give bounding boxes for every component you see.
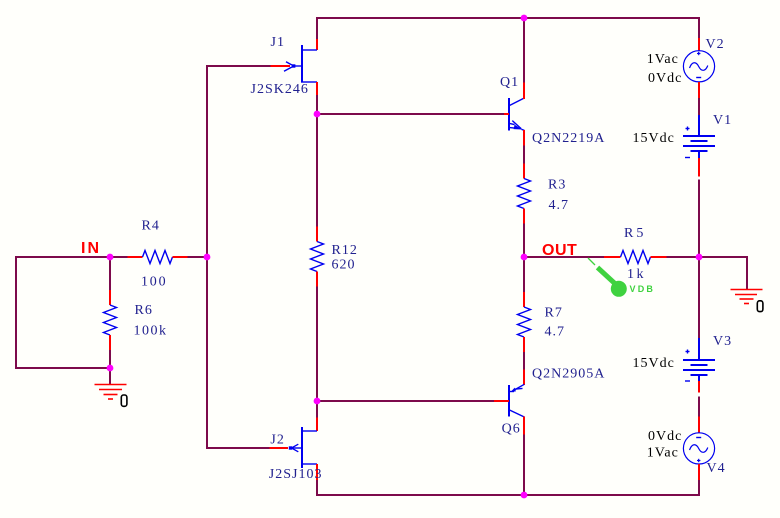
svg-text:R7: R7 — [545, 305, 563, 320]
wire R7 to Q6 emitter — [523, 352, 525, 371]
resistor R5 value 1k — [604, 251, 667, 264]
wire node to J2 drain — [316, 400, 318, 418]
wire OUT node to R7 — [523, 256, 525, 293]
wire node to Q1 base — [316, 113, 505, 115]
resistor R12 value 620 — [311, 227, 324, 287]
resistor R3 value 4.7 — [518, 164, 531, 224]
wire V1 to V3 through right rail node — [698, 180, 700, 339]
wire R6 to ground node — [109, 350, 111, 370]
svg-text:100k: 100k — [134, 323, 168, 338]
junction node dot 1 — [521, 15, 528, 22]
resistor R7 value 4.7 — [518, 292, 531, 352]
junction node dot 3 — [107, 254, 114, 261]
svg-text:Q6: Q6 — [502, 422, 521, 437]
svg-text:J2SK246: J2SK246 — [251, 82, 309, 97]
transistor Q1 Q2N2219A (NPN) — [504, 83, 524, 146]
junction node dot 2 — [314, 111, 321, 118]
svg-text:Q2N2905A: Q2N2905A — [532, 367, 605, 382]
svg-text:620: 620 — [332, 257, 356, 272]
svg-text:0Vdc: 0Vdc — [648, 71, 682, 86]
junction node dot 4 — [204, 254, 211, 261]
svg-text:R5: R5 — [624, 226, 646, 241]
ground 0 left — [95, 385, 127, 400]
wire node to Q6 base — [316, 400, 500, 402]
label 0 of right ground — [757, 301, 763, 312]
svg-text:J1: J1 — [271, 35, 285, 50]
svg-text:R3: R3 — [548, 178, 566, 193]
ground 0 right — [731, 290, 763, 304]
svg-text:J2: J2 — [270, 432, 284, 447]
svg-text:V3: V3 — [713, 334, 732, 349]
probe marker VDB on OUT net — [588, 258, 627, 297]
svg-text:R4: R4 — [142, 219, 160, 234]
wire ground node to ground symbol — [109, 367, 111, 385]
svg-text:15Vdc: 15Vdc — [633, 356, 675, 371]
wire OUT node to R5 — [523, 256, 605, 258]
wire top rail — [317, 18, 699, 40]
svg-text:V2: V2 — [706, 37, 725, 52]
svg-text:1Vac: 1Vac — [647, 445, 679, 460]
svg-text:0Vdc: 0Vdc — [648, 429, 682, 444]
junction node dot 7 — [107, 365, 114, 372]
svg-text:4.7: 4.7 — [549, 198, 570, 213]
svg-text:R12: R12 — [332, 243, 358, 258]
svg-text:VDB: VDB — [630, 284, 656, 294]
wire IN node to R6 — [109, 256, 111, 291]
wire J1 source to node — [316, 93, 318, 115]
wire V3 to V4 — [698, 397, 700, 418]
svg-text:R6: R6 — [135, 303, 153, 318]
JFET J2 J2SJ103 (P-JFET) — [270, 418, 318, 481]
JFET J1 J2SK246 (N-JFET) — [271, 39, 318, 95]
svg-text:Q1: Q1 — [500, 75, 519, 90]
wire input loop from IN node to ground node — [16, 257, 110, 368]
wire bottom rail — [317, 479, 699, 495]
svg-text:V4: V4 — [707, 461, 726, 476]
svg-text:J2SJ103: J2SJ103 — [269, 467, 323, 482]
wire Q1 emitter to R3 — [523, 145, 525, 164]
svg-text:100: 100 — [141, 275, 167, 290]
junction node dot 9 — [521, 492, 528, 499]
AC source V4 0Vdc 1Vac — [683, 417, 714, 481]
wire Q6 collector to bottom rail — [523, 434, 525, 496]
svg-text:1k: 1k — [627, 267, 646, 282]
junction node dot 6 — [696, 254, 703, 261]
svg-text:15Vdc: 15Vdc — [633, 131, 675, 146]
junction node dot 5 — [521, 254, 528, 261]
svg-text:1Vac: 1Vac — [647, 52, 679, 67]
resistor R4 value 100 — [128, 251, 188, 264]
DC source V1 15Vdc (battery) — [683, 115, 715, 177]
wire R5 to right rail node — [666, 256, 700, 258]
transistor Q6 Q2N2905A (PNP) — [494, 370, 524, 435]
wire Q1 collector to top rail — [523, 17, 525, 83]
wire R3 to OUT node — [523, 223, 525, 258]
wire R4 to gate bus node — [187, 256, 208, 258]
wire gate bus: J1 gate, input column, J2 gate — [207, 66, 271, 448]
junction node dot 8 — [314, 398, 321, 405]
DC source V3 15Vdc (battery) — [683, 338, 715, 393]
svg-text:4.7: 4.7 — [545, 324, 566, 339]
svg-text:IN: IN — [81, 240, 101, 257]
wire IN node to R4 — [109, 256, 128, 258]
svg-text:Q2N2219A: Q2N2219A — [532, 131, 605, 146]
resistor R6 value 100k — [104, 290, 117, 350]
AC source V2 1Vac 0Vdc — [683, 38, 714, 98]
svg-text:V1: V1 — [713, 113, 732, 128]
wire right rail node to ground branch — [698, 257, 747, 290]
wire R12 bottom to node — [316, 286, 318, 402]
svg-text:OUT: OUT — [542, 242, 577, 259]
wire node to R12 top — [316, 113, 318, 227]
label 0 of left ground — [121, 395, 127, 406]
wire V2 to V1 — [698, 98, 700, 116]
